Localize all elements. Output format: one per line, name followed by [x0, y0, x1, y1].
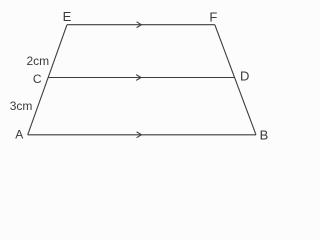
line CD (mid-segment) — [48, 77, 234, 79]
side EA (left slanted side of trapezium through C) — [28, 25, 67, 135]
svg-text:D: D — [240, 68, 249, 83]
svg-text:2cm: 2cm — [27, 54, 50, 68]
svg-text:C: C — [33, 72, 42, 86]
side FB (right slanted side of trapezium through D) — [215, 25, 256, 135]
parallel mark arrow on AB — [137, 132, 142, 138]
svg-text:A: A — [15, 128, 23, 142]
svg-text:E: E — [63, 9, 72, 24]
parallel mark arrow on CD — [136, 75, 141, 81]
svg-text:B: B — [260, 128, 269, 143]
line EF (top parallel side) — [67, 24, 215, 26]
parallel mark arrow on EF — [137, 22, 142, 28]
line AB (bottom parallel side) — [28, 134, 256, 136]
svg-text:F: F — [209, 10, 217, 25]
svg-text:3cm: 3cm — [10, 99, 33, 113]
